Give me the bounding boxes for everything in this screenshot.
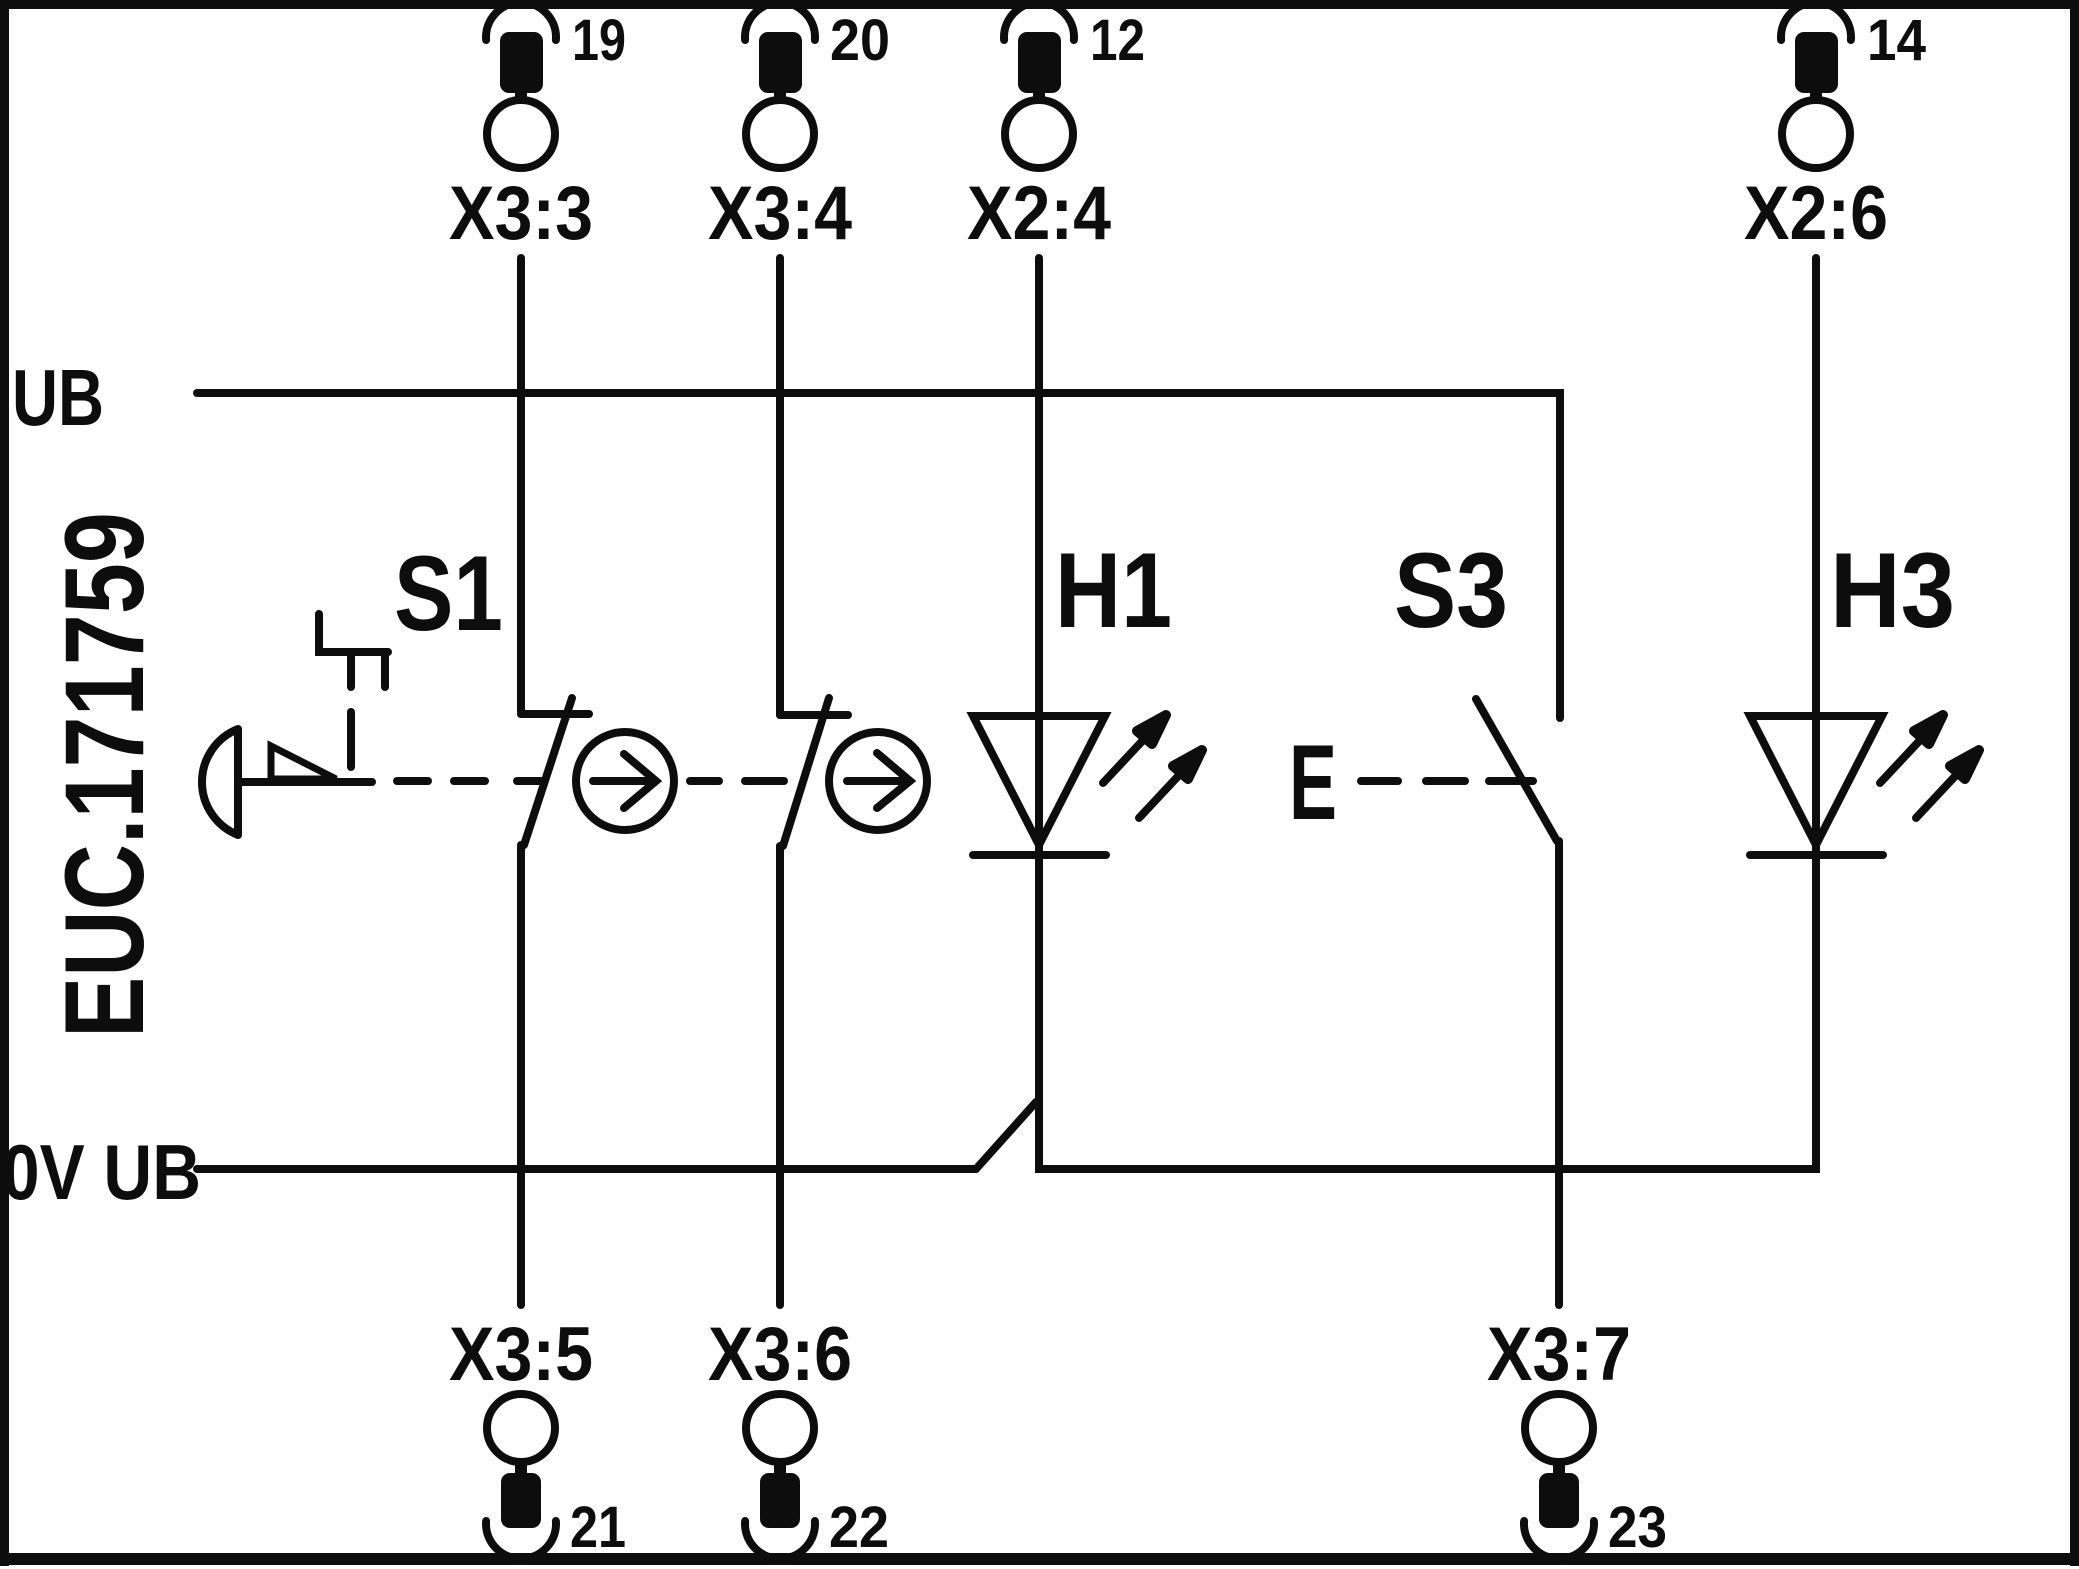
LED H1 triangle bbox=[973, 716, 1105, 845]
svg-text:23: 23 bbox=[1608, 1495, 1667, 1560]
svg-text:H3: H3 bbox=[1830, 530, 1955, 650]
contact 2 blade bbox=[783, 698, 829, 846]
LED H1 cathode bar bbox=[973, 851, 1106, 859]
svg-text:19: 19 bbox=[572, 8, 626, 73]
wire 0V diagonal join to H1 branch bbox=[976, 1102, 1036, 1169]
svg-text:0V UB: 0V UB bbox=[2, 1128, 201, 1216]
wire 0V bus bbox=[197, 1165, 976, 1173]
wire UB bus with corner down to S3 bbox=[197, 393, 1560, 718]
svg-text:X2:6: X2:6 bbox=[1744, 171, 1888, 256]
positive-opening symbol circle-arrow 2 bbox=[829, 732, 927, 830]
svg-text:21: 21 bbox=[570, 1495, 626, 1560]
svg-text:20: 20 bbox=[830, 8, 890, 73]
dashed actuation line S1 to contact 1 bbox=[397, 777, 428, 785]
S1 twist-release symbol bbox=[319, 614, 388, 652]
LED H3 light arrows bbox=[1880, 715, 1979, 818]
contact 2 fixed terminal tick bbox=[780, 711, 848, 719]
S1 actuator stem bbox=[238, 778, 372, 786]
contact 1 fixed terminal tick bbox=[521, 710, 589, 718]
svg-text:X2:4: X2:4 bbox=[967, 171, 1111, 256]
svg-text:E: E bbox=[1289, 722, 1337, 842]
connector X2:6 top (pin 14) bbox=[1781, 2, 1851, 168]
svg-text:X3:7: X3:7 bbox=[1487, 1312, 1631, 1397]
dashed link twist symbol to stem bbox=[347, 712, 355, 767]
positive-opening symbol circle-arrow 1 bbox=[576, 732, 674, 830]
connector X2:4 top (pin 12) bbox=[1004, 2, 1074, 168]
dashed actuation line E to S3 bbox=[1361, 777, 1398, 785]
svg-text:X3:6: X3:6 bbox=[708, 1312, 852, 1397]
LED H3 triangle bbox=[1750, 716, 1882, 845]
svg-text:X3:3: X3:3 bbox=[449, 171, 593, 256]
svg-text:S3: S3 bbox=[1394, 530, 1508, 650]
connector X3:4 top (pin 20) bbox=[745, 2, 815, 168]
svg-text:12: 12 bbox=[1090, 8, 1145, 73]
dashed actuation line between contacts bbox=[690, 777, 719, 785]
wire X3:3 branch upper bbox=[517, 258, 525, 714]
svg-text:14: 14 bbox=[1867, 8, 1926, 73]
connector X3:3 top (pin 19) bbox=[486, 2, 556, 168]
svg-text:H1: H1 bbox=[1055, 530, 1172, 650]
S1 release triangle bbox=[271, 746, 336, 779]
svg-text:22: 22 bbox=[829, 1495, 889, 1560]
wire X3:3 branch lower bbox=[517, 845, 525, 1305]
pushbutton S1 mushroom head bbox=[202, 729, 238, 835]
svg-text:UB: UB bbox=[12, 353, 104, 442]
LED H3 cathode bar bbox=[1750, 851, 1883, 859]
svg-text:S1: S1 bbox=[394, 533, 503, 653]
svg-text:X3:4: X3:4 bbox=[708, 171, 852, 256]
wire X3:4 branch lower bbox=[776, 846, 784, 1305]
svg-text:EUC.171759: EUC.171759 bbox=[42, 512, 167, 1038]
wire X3:4 branch upper bbox=[776, 258, 784, 715]
switch S3 blade bbox=[1476, 699, 1557, 841]
contact 1 blade bbox=[524, 698, 572, 845]
wire H1 / 0V right section / H3 wire bbox=[1039, 258, 1816, 1169]
LED H1 light arrows bbox=[1103, 715, 1202, 818]
wire S3 lower to X3:7 bbox=[1555, 841, 1563, 1305]
svg-text:X3:5: X3:5 bbox=[449, 1312, 593, 1397]
